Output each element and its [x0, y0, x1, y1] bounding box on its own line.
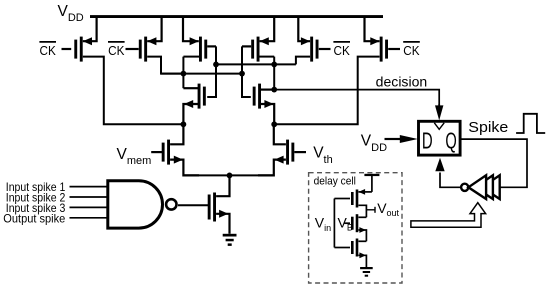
nand gate U1 (spike gating) [108, 181, 177, 228]
wire M1 drain to Vmem drain node [83, 57, 184, 125]
svg-text:decision: decision [376, 73, 428, 89]
power stub VDD (delay cell) [364, 174, 379, 192]
wire NAND inputs [70, 187, 108, 218]
label Vin [315, 215, 331, 233]
svg-text:CK: CK [334, 44, 351, 58]
arrow decision into flip-flop [435, 104, 443, 120]
pmos M1 (precharge, clock CKbar, far left) [62, 17, 97, 62]
pin label Q [445, 127, 456, 153]
pmos M6 (precharge, clock CKbar, far right) [365, 17, 401, 62]
label VDD (flip-flop D input) [361, 133, 387, 154]
spike pulse waveform [516, 114, 545, 133]
label Vmem [117, 146, 152, 167]
nmos M10 (input Vth) [258, 124, 306, 175]
label Output spike [3, 211, 65, 225]
wire M6 drain down to right input node [274, 57, 379, 125]
wire tail node [183, 174, 273, 176]
svg-text:CK: CK [40, 44, 57, 58]
label CKbar (M2 gate) [108, 42, 125, 58]
wire right latch node bus [216, 63, 296, 65]
node junction left bus / right gates [239, 71, 245, 77]
power rail VDD [90, 15, 383, 18]
wire cross-coupling left gates (M3, M7) [207, 46, 216, 97]
label Input spike 2 [6, 191, 66, 205]
label CKbar (M5 gate) [333, 42, 350, 58]
svg-text:CK: CK [403, 44, 420, 58]
wire Vin (connects M12 and M14 gates) [333, 199, 335, 248]
svg-text:delay cell: delay cell [314, 176, 356, 188]
svg-text:D: D [422, 127, 433, 153]
label Vth [313, 145, 333, 166]
nmos M14 (delay cell, input) [334, 239, 366, 268]
label VDD (top) [58, 3, 84, 24]
label decision [376, 73, 428, 89]
nmos M9 (input Vmem) [151, 124, 199, 175]
nmos M13 (delay cell, bias VB) [344, 214, 366, 241]
label CKbar (M6 gate) [403, 42, 420, 58]
wire M2 drain to left latch node [147, 57, 183, 74]
inverter INV3 [482, 175, 500, 199]
node junction decision takeoff (right latch node) [271, 87, 277, 93]
node junction right bus / left gates [213, 62, 219, 68]
node junction tail [227, 173, 233, 179]
label Input spike 3 [6, 201, 66, 215]
delay cell boundary (dashed) [309, 173, 402, 283]
pmos M5 (precharge, clock CKbar) [298, 17, 330, 62]
flip-flop U2 (D latch) [419, 121, 461, 155]
nmos M11 (tail current switch) [178, 175, 230, 233]
nmos M7 (latch cross-coupled, left) [183, 74, 205, 125]
pmos M4 (latch cross-coupled, right) [242, 17, 274, 62]
wire left latch node bus [161, 73, 242, 75]
label delay cell [314, 176, 356, 188]
node junction left bus / M3-M7 drains [181, 71, 187, 77]
ground (delay cell) [360, 267, 373, 277]
label VB [338, 214, 353, 232]
label Spike [468, 119, 508, 136]
label Vout [366, 200, 399, 218]
inverter INV2 [475, 175, 493, 199]
wire Q output (Spike) [460, 139, 527, 187]
node junction right input node [271, 121, 277, 127]
arrow VDD to D [385, 135, 418, 143]
svg-text:CK: CK [108, 44, 125, 58]
ground (tail) [223, 234, 237, 246]
nmos M8 (latch cross-coupled, right) [253, 84, 275, 125]
node junction right bus / M4 drain [271, 62, 277, 68]
pmos M12 (delay cell) [334, 189, 372, 217]
wire decision to flip-flop clockish input [274, 90, 439, 106]
arrow clock into flip-flop bottom [435, 158, 444, 172]
callout arrow (delay cell applies to inverters) [411, 203, 486, 228]
inverter INV1 [468, 175, 486, 199]
label Input spike 1 [6, 180, 66, 194]
wire M3 drain down to left latch node [183, 57, 199, 74]
node junction left input node [181, 121, 187, 127]
svg-text:Q: Q [445, 127, 456, 153]
pmos M3 (latch cross-coupled, left) [183, 17, 216, 62]
pmos M2 (precharge, clock CKbar) [126, 17, 162, 62]
wire cross-coupling right gates (M4, M8) [242, 46, 251, 97]
inverter chain (delay line) bubble [461, 184, 468, 191]
svg-text:Spike: Spike [468, 119, 508, 136]
wire inverter chain to flip-flop clock [440, 173, 461, 188]
wire M5 drain to right latch node [296, 57, 310, 65]
pin label D [422, 127, 433, 153]
wire M4 drain down right latch column [260, 57, 275, 90]
svg-text:Output spike: Output spike [3, 211, 65, 225]
label CKbar (M1 gate) [39, 42, 56, 58]
